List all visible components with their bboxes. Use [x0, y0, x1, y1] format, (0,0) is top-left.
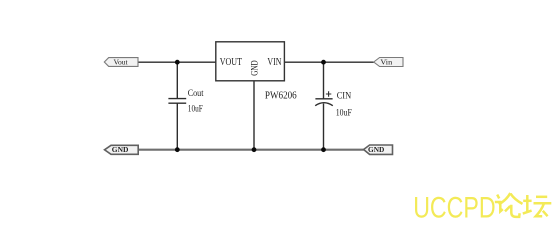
- svg-text:10uF: 10uF: [188, 103, 203, 113]
- node B junction dot: [321, 60, 326, 65]
- svg-text:GND: GND: [368, 146, 384, 154]
- svg-text:VIN: VIN: [267, 57, 281, 68]
- wire chip GND pin to ground rail: [253, 81, 255, 150]
- wire node B down to CIN top plate: [323, 62, 325, 99]
- junction dot CIN/ground rail: [321, 147, 326, 152]
- watermark char 论: [495, 193, 523, 217]
- node A junction dot: [175, 60, 180, 65]
- wire node A down to Cout top plate: [176, 62, 178, 98]
- svg-text:VOUT: VOUT: [220, 57, 242, 68]
- wire chip VIN to Vin flag: [284, 61, 374, 63]
- svg-text:GND: GND: [250, 60, 260, 76]
- junction dot Cout/ground rail: [175, 147, 180, 152]
- port flag GND right: [364, 145, 393, 154]
- port flag GND left: [105, 145, 139, 154]
- wire Vout flag to node A: [138, 61, 216, 63]
- svg-text:Cout: Cout: [188, 88, 204, 98]
- ground rail wire: [138, 149, 363, 151]
- port flag Vout: [104, 58, 138, 67]
- port flag Vin: [374, 58, 403, 67]
- watermark char 坛: [523, 195, 552, 216]
- svg-text:CIN: CIN: [337, 90, 352, 100]
- svg-text:GND: GND: [112, 146, 129, 154]
- svg-text:10uF: 10uF: [336, 108, 352, 118]
- capacitor CIN bottom plate (arc): [315, 103, 333, 106]
- junction dot chip GND/ground rail: [252, 147, 257, 152]
- wire CIN bottom plate to ground rail: [323, 104, 325, 150]
- regulator U1 PW6206 body: [216, 42, 285, 81]
- wire Cout bottom plate to ground rail: [176, 103, 178, 150]
- svg-text:PW6206: PW6206: [265, 90, 297, 101]
- svg-text:Vin: Vin: [380, 58, 392, 67]
- capacitor CIN polarity plus: [326, 91, 331, 96]
- capacitor Cout plates: [168, 98, 186, 100]
- svg-text:Vout: Vout: [114, 58, 129, 67]
- capacitor CIN top plate: [315, 98, 332, 100]
- svg-text:UCCPD: UCCPD: [413, 192, 495, 222]
